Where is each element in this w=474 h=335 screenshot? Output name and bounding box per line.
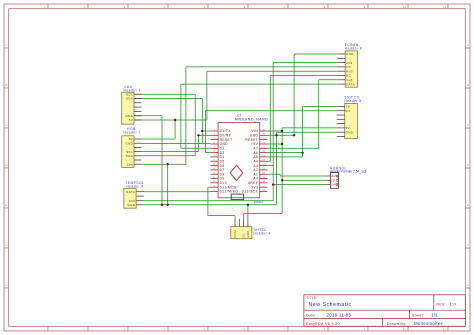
wire RGB Led net [142,164,186,205]
svg-text:2018-11-05: 2018-11-05 [327,313,352,318]
svg-text:B: B [6,83,8,87]
connector SIGFOX Header 8 [337,95,362,138]
nano usb rect [231,194,243,200]
svg-text:GND: GND [246,231,250,238]
svg-text:GND: GND [125,141,133,145]
svg-text:Led: Led [127,162,133,166]
svg-text:New Schematic: New Schematic [309,302,352,308]
svg-text:DATA: DATA [233,230,237,238]
wire HUMSOL DATA net [267,174,326,176]
wire RGB GND to nano [142,142,211,144]
wire ECRAN DC net [267,76,337,162]
svg-text:Header 4: Header 4 [254,231,271,235]
svg-text:REV:: REV: [436,303,445,307]
svg-text:D12/MISO: D12/MISO [220,190,239,194]
svg-text:D10: D10 [220,181,227,185]
junction dots [161,119,304,206]
svg-text:Date:: Date: [306,314,316,318]
svg-text:Drawn By:: Drawn By: [387,322,407,326]
wire ECRAN CS net [186,67,337,164]
svg-text:A: A [6,43,8,47]
svg-text:DATA: DATA [331,174,339,178]
wire ECRAN DATA net [181,84,337,148]
svg-text:SDA: SDA [126,97,133,101]
wire ECRAN RST net [207,71,337,120]
svg-text:5V: 5V [242,234,246,238]
svg-text:SDA: SDA [126,154,133,158]
wire SIGFOX RX to D3 [205,111,210,153]
title block [304,295,465,327]
svg-text:1/1: 1/1 [431,313,438,318]
connector HUMSOL Header-Female [326,166,366,188]
svg-text:DATA: DATA [346,82,355,86]
svg-text:Header 7: Header 7 [124,131,141,135]
svg-text:ARDUINO_NANO: ARDUINO_NANO [235,118,269,122]
connector DHT22 Header 4 [231,219,271,239]
svg-text:GND: GND [346,52,354,56]
wire 5V net right [244,128,337,219]
svg-text:B: B [467,83,469,87]
svg-text:Header 4: Header 4 [126,184,143,188]
wire ECRAN GND net [294,54,337,135]
svg-text:GND: GND [254,200,264,204]
nano diamond mark [230,165,243,180]
wire SIGFOX TX net [267,106,336,156]
svg-text:AREF: AREF [248,181,258,185]
title block texts [306,296,446,326]
wire LUX SCL net [134,94,195,156]
wire GND run bottom [144,132,337,219]
wire 3V3 net [144,63,337,201]
svg-text:G: G [5,283,7,287]
svg-text:C: C [5,123,7,127]
svg-text:DATA: DATA [126,190,135,194]
svg-text:Header-Female-2.54_1x3: Header-Female-2.54_1x3 [330,170,367,174]
svg-text:GND: GND [127,203,135,207]
wire RGB 5V to LUX 5V [142,138,176,140]
svg-text:GND: GND [346,130,354,134]
op-amp U1 ARDUINO_NANO body [218,114,268,200]
wire RGB SCL to D0/RX [142,135,211,151]
svg-text:5V: 5V [331,178,335,182]
connector LUX Header 7 [122,85,142,124]
wire HUMSOL GND net [273,184,326,186]
wire TEMPSOL DATA to D12 [144,191,211,193]
svg-text:RX: RX [346,109,351,113]
wire SIGFOX RX net [205,110,336,112]
svg-text:E: E [467,203,469,207]
svg-text:A: A [467,43,469,47]
svg-text:Sheet:: Sheet: [412,314,424,318]
wire nano A3 stub wire [267,165,273,167]
svg-text:GND: GND [331,183,338,187]
svg-text:G: G [467,283,469,287]
svg-text:RESET: RESET [245,138,258,142]
wire LUX 5V net [134,120,207,139]
svg-text:Header 7: Header 7 [124,89,141,93]
svg-text:Moitesmoites: Moitesmoites [414,321,443,326]
connector ECRAN Header 8 [337,43,362,87]
svg-text:D: D [467,163,469,167]
svg-text:RESET: RESET [220,138,233,142]
svg-text:A4: A4 [253,159,258,163]
svg-text:5V: 5V [129,118,133,122]
nano right pins [260,131,268,192]
svg-text:E: E [6,203,8,207]
svg-text:Header 8: Header 8 [344,99,361,103]
wire ECRAN CLK net [267,80,337,149]
svg-text:C: C [467,123,469,127]
wire LUX GND net [134,116,162,205]
nano left pins [210,131,218,192]
svg-text:D13/SCK: D13/SCK [242,190,259,194]
svg-text:D5: D5 [220,159,225,163]
connector RGB Header 7 [122,127,142,167]
svg-text:TITLE:: TITLE: [306,296,317,300]
svg-text:Header 8: Header 8 [345,46,362,50]
wire DHT DATA to D11/MOSI [208,187,235,219]
svg-text:D: D [5,163,7,167]
svg-text:EasyEDA V5.9.20: EasyEDA V5.9.20 [306,322,340,326]
connector TEMPSOL Header 4 [124,181,145,208]
svg-text:1.0: 1.0 [450,302,457,307]
wire LUX SDA net [134,99,210,144]
